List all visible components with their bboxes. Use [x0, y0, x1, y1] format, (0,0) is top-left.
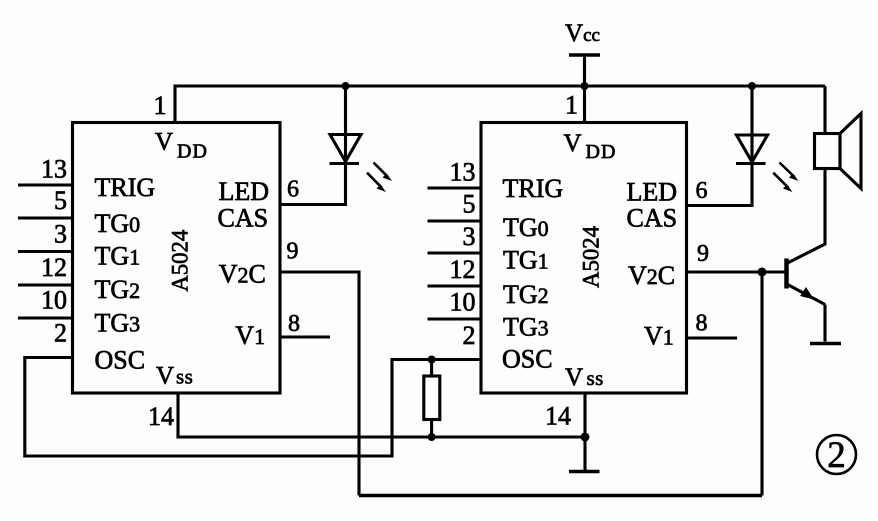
U1 label LED CAS: [218, 177, 270, 233]
ground at U2 pin 14: [569, 470, 600, 474]
pin number 8 of U1: [288, 311, 300, 337]
svg-text:V: V: [565, 364, 583, 391]
svg-text:V2C: V2C: [219, 260, 266, 289]
U2 label LED CAS: [627, 178, 678, 233]
svg-text:A5024: A5024: [579, 226, 604, 288]
U1 pin 8 stub: [280, 335, 330, 338]
U1 label OSC: [95, 346, 146, 375]
wire U1 pin 6 to LED D1: [280, 164, 346, 205]
U1 label TRIG: [95, 173, 156, 202]
resistor R1: [424, 360, 440, 438]
svg-text:ss: ss: [587, 366, 604, 390]
U1 pin 5 stub: [18, 216, 73, 219]
U1 label V2C: [219, 260, 266, 289]
U2 pin 5 stub: [428, 219, 482, 222]
op-amp U1 A5024 body: [73, 123, 281, 394]
U1 label TG3: [95, 309, 141, 338]
svg-text:TG2: TG2: [503, 280, 549, 309]
pin number 12 of U1: [41, 253, 67, 282]
pin number 5 of U1: [54, 186, 67, 215]
U2 label TG3: [503, 313, 549, 342]
svg-text:3: 3: [54, 220, 67, 249]
pin number 14 of U1: [148, 402, 174, 431]
svg-text:2: 2: [827, 435, 846, 476]
node Q1 base junction: [758, 268, 767, 277]
U1 pin 13 stub: [18, 183, 73, 186]
node rail to LED D2 junction: [748, 82, 756, 90]
U2 label TG0: [503, 213, 549, 242]
pin number 9 of U1: [287, 239, 299, 265]
pin number 13 of U1: [41, 155, 67, 184]
pin number 12 of U2: [450, 255, 476, 284]
LED D2: [736, 86, 799, 192]
svg-text:6: 6: [696, 178, 708, 204]
svg-text:V1: V1: [235, 321, 265, 350]
U1 pin 3 stub: [18, 250, 73, 253]
U1 label TG1: [95, 242, 141, 271]
U2 label V1: [644, 322, 674, 351]
U2 label Vss: [565, 364, 604, 391]
svg-text:Vcc: Vcc: [565, 20, 600, 47]
speaker LS1: [815, 86, 862, 189]
pin number 3 of U1: [54, 220, 67, 249]
svg-text:DD: DD: [586, 141, 617, 163]
U2 pin 3 stub: [428, 251, 482, 254]
svg-text:ss: ss: [176, 365, 193, 389]
svg-text:CAS: CAS: [627, 204, 678, 233]
op-amp U2 A5024 body: [481, 123, 687, 394]
wire U1 pin 14 to Vss rail: [178, 393, 585, 437]
LED D1: [330, 86, 393, 192]
U1 label TG2: [95, 275, 141, 304]
pin number 6 of U2: [696, 178, 708, 204]
svg-text:2: 2: [463, 321, 476, 350]
pin number 1 of U2: [565, 91, 578, 120]
svg-text:V: V: [155, 129, 173, 156]
U2 label TG2: [503, 280, 549, 309]
U2 label OSC: [502, 345, 553, 374]
U2 pin 12 stub: [428, 284, 482, 287]
pin number 5 of U2: [463, 190, 476, 219]
svg-text:DD: DD: [177, 141, 208, 163]
svg-text:LED: LED: [627, 178, 678, 207]
pin number 6 of U1: [287, 177, 299, 203]
ground at Q1 emitter: [810, 342, 841, 346]
pin number 9 of U2: [697, 241, 709, 267]
node rail to LED D1 junction: [342, 82, 350, 90]
wire U2 pin 14 drop: [583, 393, 586, 470]
U2 pin 8 stub: [687, 336, 738, 339]
svg-text:V1: V1: [644, 322, 674, 351]
U1 label VDD: [155, 129, 208, 163]
svg-text:5: 5: [54, 186, 67, 215]
svg-text:10: 10: [41, 286, 67, 315]
svg-text:6: 6: [287, 177, 299, 203]
svg-text:13: 13: [450, 158, 476, 187]
svg-text:TG3: TG3: [95, 309, 141, 338]
svg-text:TRIG: TRIG: [503, 174, 564, 203]
svg-text:LED: LED: [219, 177, 270, 206]
svg-text:V: V: [156, 363, 174, 390]
node resistor R1 top junction: [428, 356, 436, 364]
pin number 10 of U2: [450, 288, 476, 317]
svg-text:1: 1: [565, 91, 578, 120]
svg-text:8: 8: [696, 311, 708, 337]
U1 pin 10 stub: [18, 316, 73, 319]
U1 label V1: [235, 321, 265, 350]
pin number 13 of U2: [450, 158, 476, 187]
U2 label V2C: [628, 261, 675, 290]
pin number 2 of U1: [54, 319, 67, 348]
U1 pin 12 stub: [18, 283, 73, 286]
U2 part number A5024: [579, 226, 604, 288]
wire U1 OSC pin 2 link to U2 OSC: [25, 358, 481, 457]
svg-text:10: 10: [450, 288, 476, 317]
svg-text:14: 14: [545, 402, 571, 431]
wire bottom rail: [359, 494, 762, 498]
svg-text:TG0: TG0: [503, 213, 549, 242]
pin number 8 of U2: [696, 311, 708, 337]
U2 pin 13 stub: [428, 186, 482, 189]
svg-text:TG0: TG0: [95, 209, 141, 238]
wire bottom rail riser to Q1 base node: [760, 272, 763, 496]
pin number 10 of U1: [41, 286, 67, 315]
svg-text:V: V: [564, 130, 582, 157]
svg-text:3: 3: [463, 222, 476, 251]
svg-text:12: 12: [41, 253, 67, 282]
svg-text:12: 12: [450, 255, 476, 284]
node Vss rail to U2 pin 14 junction: [581, 433, 590, 442]
svg-text:CAS: CAS: [218, 204, 269, 233]
pin number 3 of U2: [463, 222, 476, 251]
svg-text:5: 5: [463, 190, 476, 219]
wire U2 pin 1 to rail: [583, 86, 586, 123]
wire U2 V2C pin 9 to Q1 base: [687, 270, 786, 273]
svg-text:TG3: TG3: [503, 313, 549, 342]
pin number 2 of U2: [463, 321, 476, 350]
pin number 14 of U2: [545, 402, 571, 431]
node resistor R1 bottom junction: [428, 433, 436, 441]
figure number 2 badge: [817, 435, 856, 476]
svg-text:TRIG: TRIG: [95, 173, 156, 202]
svg-text:A5024: A5024: [168, 229, 193, 291]
wire U2 pin 6 to LED D2: [687, 164, 753, 206]
svg-text:TG1: TG1: [503, 246, 549, 275]
svg-text:13: 13: [41, 155, 67, 184]
Vcc supply: [565, 20, 600, 86]
U1 label TG0: [95, 209, 141, 238]
svg-text:1: 1: [154, 91, 167, 120]
wire top Vcc rail: [175, 86, 825, 123]
U2 label TRIG: [503, 174, 564, 203]
svg-text:V2C: V2C: [628, 261, 675, 290]
svg-text:OSC: OSC: [502, 345, 553, 374]
svg-text:14: 14: [148, 402, 174, 431]
U2 label VDD: [564, 130, 617, 163]
svg-text:9: 9: [697, 241, 709, 267]
pin number 1 of U1: [154, 91, 167, 120]
node Vcc tap junction: [581, 82, 589, 90]
svg-text:8: 8: [288, 311, 300, 337]
svg-text:2: 2: [54, 319, 67, 348]
svg-text:TG1: TG1: [95, 242, 141, 271]
svg-text:TG2: TG2: [95, 275, 141, 304]
wire U1 V2C pin 9 to bottom rail: [280, 272, 359, 496]
U1 label Vss: [156, 363, 193, 390]
U1 part number A5024: [168, 229, 193, 291]
svg-text:9: 9: [287, 239, 299, 265]
svg-text:OSC: OSC: [95, 346, 146, 375]
U2 pin 10 stub: [428, 317, 482, 320]
transistor Q1: [787, 169, 826, 342]
U2 label TG1: [503, 246, 549, 275]
